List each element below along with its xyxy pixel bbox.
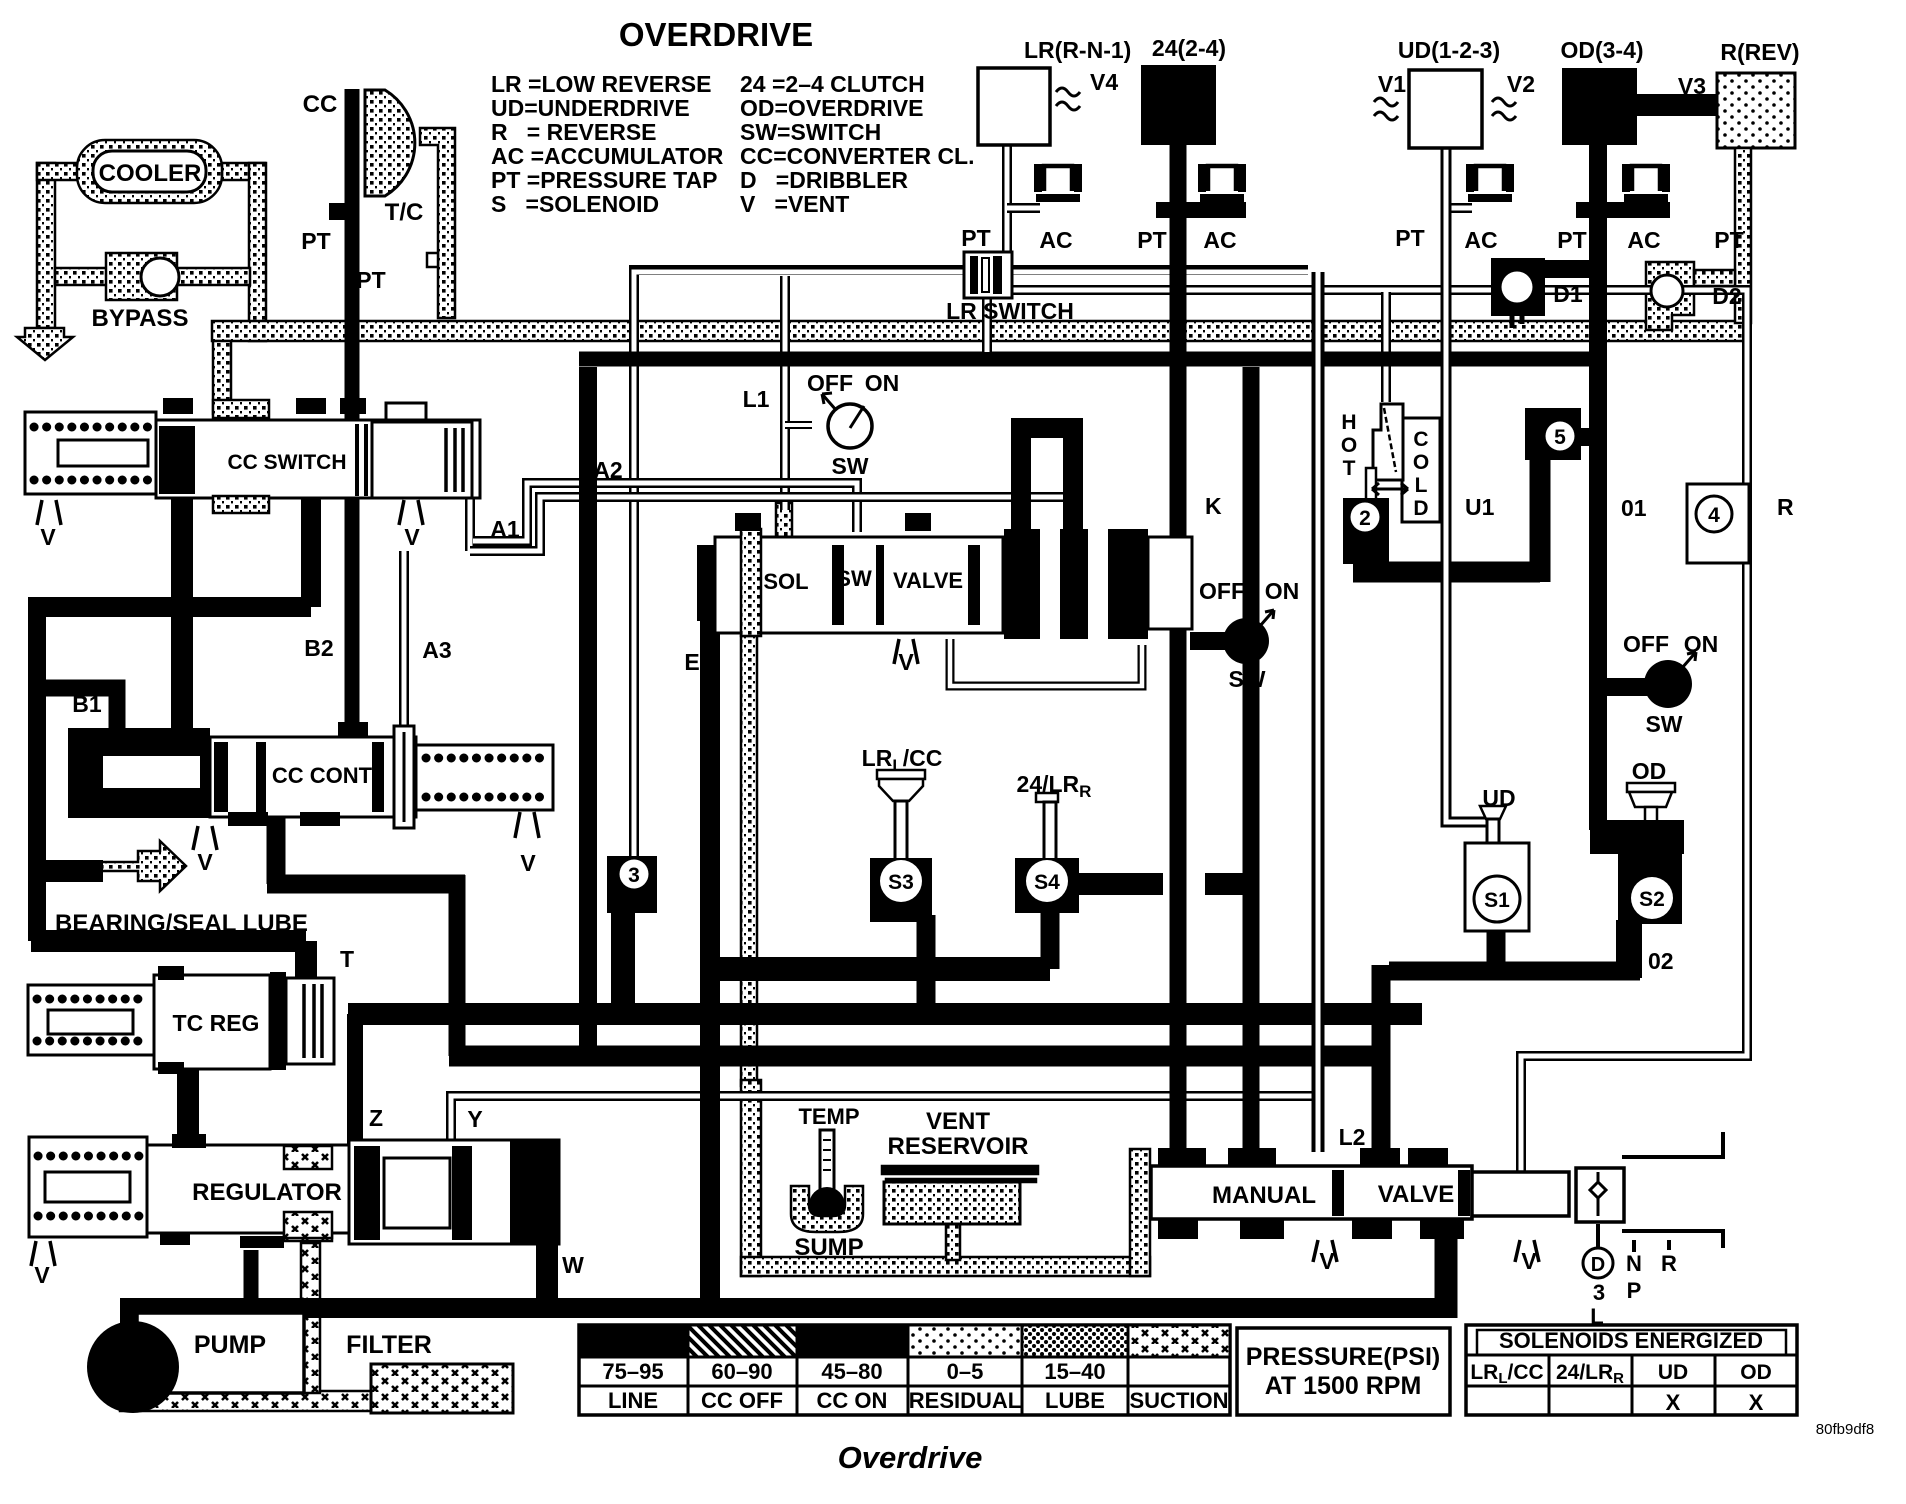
svg-text:S1: S1 [1484, 889, 1510, 912]
svg-text:OD=OVERDRIVE: OD=OVERDRIVE [740, 95, 923, 121]
solenoid S2 funnel [1627, 783, 1675, 792]
sump bottom wall [741, 1257, 1150, 1276]
valve BYPASS body [106, 253, 177, 300]
svg-text:0–5: 0–5 [947, 1359, 984, 1384]
svg-text:80fb9df8: 80fb9df8 [1816, 1421, 1874, 1438]
svg-text:A3: A3 [422, 637, 451, 663]
svg-text:S2: S2 [1639, 888, 1665, 911]
wire T/C right channel [420, 128, 455, 318]
wire A3 stem [399, 551, 409, 731]
valve CC CONT body [210, 737, 416, 817]
svg-text:E: E [684, 649, 699, 675]
svg-text:SUCTION: SUCTION [1130, 1388, 1229, 1413]
wire main trunk VB riser [579, 367, 597, 1056]
svg-text:V1: V1 [1378, 71, 1406, 97]
wire LR stem [1002, 145, 1012, 258]
solenoid S4 stem [1036, 793, 1058, 802]
node 3 (black box with circle) [607, 856, 657, 913]
wire regulator W drop [536, 1240, 558, 1308]
svg-text:OFF: OFF [1623, 631, 1669, 657]
svg-text:PUMP: PUMP [194, 1331, 266, 1359]
valve CC CONT spring housing [416, 745, 553, 810]
thermometer TEMP [820, 1130, 834, 1192]
dribbler D2 housing [1646, 262, 1694, 330]
wire 5-box to OD link [1578, 428, 1600, 446]
svg-text:T: T [1343, 457, 1356, 480]
svg-text:SOLENOIDS ENERGIZED: SOLENOIDS ENERGIZED [1499, 1328, 1763, 1353]
svg-text:W: W [562, 1252, 584, 1278]
svg-text:R: R [1661, 1251, 1677, 1276]
svg-text:PT: PT [356, 267, 385, 293]
cooler inner [93, 151, 206, 192]
svg-text:B1: B1 [72, 691, 102, 717]
valve TC REG body [154, 975, 270, 1069]
wire L1 to switch tap [785, 421, 812, 429]
wire LR switch drop to line header [982, 298, 992, 352]
svg-text:OD: OD [1632, 758, 1667, 784]
valve MANUAL right bar [1472, 1172, 1569, 1216]
svg-text:LINE: LINE [608, 1388, 658, 1413]
valve MANUAL top slabs [1158, 1148, 1206, 1170]
svg-text:CC CONT: CC CONT [272, 763, 373, 788]
wire 3-box drop [611, 905, 635, 1014]
wire manual valve right bracket top [1622, 1132, 1723, 1157]
wire S1 drop [1487, 925, 1506, 971]
wire cooler left down-channel [37, 163, 55, 328]
wire drop to CC switch [213, 341, 231, 414]
suction channel regulator drop [301, 1243, 320, 1393]
svg-text:S =SOLENOID: S =SOLENOID [491, 191, 659, 217]
svg-text:V: V [404, 524, 420, 550]
switch SW mid (black, on) [1223, 618, 1269, 664]
bearing/seal lube arrow [101, 841, 186, 891]
pressure tap nub on CC line [329, 203, 345, 220]
valve REGULATOR body [147, 1145, 349, 1233]
svg-text:C: C [1413, 428, 1428, 451]
svg-text:24(2-4): 24(2-4) [1152, 35, 1226, 61]
switch SW top (off/on) [828, 404, 872, 448]
svg-text:K: K [1205, 493, 1222, 519]
svg-text:01: 01 [1621, 495, 1647, 521]
switch SW right (black, on) [1644, 660, 1692, 708]
svg-text:U1: U1 [1465, 494, 1495, 520]
wire CC switch left drop to CC cont [171, 490, 193, 737]
suction patch on regulator bottom [284, 1212, 332, 1238]
svg-text:L1: L1 [743, 386, 770, 412]
svg-text:R(REV): R(REV) [1720, 39, 1799, 65]
svg-text:OD: OD [1740, 1361, 1772, 1384]
svg-text:L: L [1415, 474, 1428, 497]
svg-text:FILTER: FILTER [346, 1331, 432, 1359]
svg-text:45–80: 45–80 [821, 1359, 882, 1384]
svg-text:UD: UD [1658, 1361, 1688, 1384]
svg-text:SOL: SOL [763, 569, 808, 594]
svg-text:OVERDRIVE: OVERDRIVE [619, 16, 813, 53]
svg-text:OD(3-4): OD(3-4) [1560, 37, 1643, 63]
solenoids table frame [1466, 1325, 1797, 1415]
svg-text:T/C: T/C [385, 199, 424, 226]
wire A1 stem [465, 455, 475, 551]
svg-text:OFF: OFF [1199, 578, 1245, 604]
solenoid S1 (outline) [1465, 843, 1529, 931]
wire 24 accumulator bar [1156, 202, 1246, 218]
svg-text:V: V [898, 649, 914, 675]
wire manual valve right bracket bottom [1622, 1231, 1723, 1248]
valve REGULATOR right section [349, 1140, 559, 1244]
svg-text:BEARING/SEAL LUBE: BEARING/SEAL LUBE [55, 910, 308, 937]
wire S4 right link segment b [1205, 873, 1251, 895]
svg-text:ON: ON [1684, 631, 1719, 657]
wire TC REG to regulator [177, 1052, 199, 1142]
svg-text:PT: PT [301, 228, 330, 254]
wire drain riser V7 [449, 875, 466, 1056]
svg-text:02: 02 [1648, 948, 1674, 974]
valve SOL-SW-VALVE body [715, 537, 1003, 633]
legend grid [579, 1357, 1230, 1415]
svg-text:R = REVERSE: R = REVERSE [491, 119, 657, 145]
converter T/C half-disc [365, 90, 415, 196]
svg-text:LRL/CC: LRL/CC [1470, 1361, 1543, 1387]
svg-text:AC =ACCUMULATOR: AC =ACCUMULATOR [491, 143, 724, 169]
wire lube header H5 [710, 957, 1050, 981]
valve SOL-SW-VALVE left port [697, 545, 731, 621]
wire bottom trunk H9 [120, 1298, 1457, 1318]
suction channel pump to filter [120, 1391, 372, 1411]
sump right wall [1130, 1149, 1150, 1276]
valve TC REG spring housing [28, 985, 154, 1055]
svg-text:PT: PT [961, 225, 990, 251]
wire left riser B1/T [28, 597, 46, 941]
suction patch below regulator [284, 1213, 332, 1241]
svg-text:PT: PT [1557, 227, 1586, 253]
svg-text:Y: Y [467, 1106, 482, 1132]
sump cup [791, 1186, 863, 1232]
valve CC CONT A3 piston [394, 726, 414, 828]
svg-text:V: V [40, 524, 56, 550]
svg-text:SUMP: SUMP [794, 1234, 863, 1261]
svg-text:X: X [1749, 1390, 1764, 1415]
svg-text:SW=SWITCH: SW=SWITCH [740, 119, 881, 145]
accumulator AC-24 [1198, 164, 1246, 202]
svg-text:3: 3 [628, 864, 640, 887]
wire A2 branch [473, 483, 857, 541]
filter element [371, 1364, 513, 1413]
wire B2 header [29, 597, 311, 617]
svg-text:AT 1500 RPM: AT 1500 RPM [1265, 1372, 1422, 1400]
wire cooler outlet arrow [17, 328, 73, 360]
svg-text:CC SWITCH: CC SWITCH [228, 451, 347, 474]
svg-text:UD=UNDERDRIVE: UD=UNDERDRIVE [491, 95, 690, 121]
wire pump inlet hook [120, 1299, 139, 1326]
wire long lube header channel [212, 321, 1748, 341]
wire CC cont drain [267, 818, 465, 884]
node 5 (black box with circle) [1525, 408, 1581, 460]
solenoid S1 stem [1480, 806, 1506, 819]
legend pattern LINE [579, 1325, 688, 1357]
wire manual valve feed riser [1243, 367, 1260, 1162]
svg-text:BYPASS: BYPASS [92, 305, 189, 332]
accumulator AC-LR [1034, 164, 1082, 202]
svg-text:PT: PT [1714, 227, 1743, 253]
vent reservoir fill [884, 1182, 1020, 1224]
dribbler D2 [1694, 270, 1735, 286]
valve BYPASS ball [141, 258, 179, 296]
svg-text:LUBE: LUBE [1045, 1388, 1105, 1413]
wire OD line 01 [1589, 145, 1607, 830]
svg-text:2: 2 [1359, 507, 1371, 530]
wire cooler right link [222, 163, 265, 180]
svg-text:D =DRIBBLER: D =DRIBBLER [740, 167, 908, 193]
svg-text:L: L [1590, 1304, 1603, 1329]
svg-text:UD: UD [1482, 785, 1515, 811]
svg-text:D2: D2 [1712, 283, 1741, 309]
svg-text:SW: SW [1228, 666, 1265, 692]
wire residual header lower (R net) [1011, 290, 1747, 1172]
solenoid S2 [1590, 820, 1684, 854]
wire Z drop to regulator [348, 1014, 355, 1152]
svg-text:O: O [1413, 451, 1429, 474]
wire L1 line [780, 276, 790, 510]
svg-text:L2: L2 [1339, 1124, 1366, 1150]
svg-text:CC OFF: CC OFF [701, 1388, 783, 1413]
wire T header [31, 941, 306, 978]
vent reservoir stem [946, 1224, 960, 1260]
detent D stem and ticks [1598, 1224, 1669, 1252]
svg-text:PRESSURE(PSI): PRESSURE(PSI) [1246, 1343, 1440, 1371]
wire S2 bottom link [1381, 965, 1640, 1162]
wire B1 loop into CC cont [37, 688, 117, 737]
svg-text:UD(1-2-3): UD(1-2-3) [1398, 37, 1500, 63]
wire trunk H7 [348, 1003, 1422, 1025]
wire S3 drain [917, 915, 936, 1014]
accumulator AC-OD [1622, 164, 1670, 202]
svg-text:T: T [340, 946, 354, 972]
svg-text:RESIDUAL: RESIDUAL [909, 1388, 1021, 1413]
svg-text:V =VENT: V =VENT [740, 191, 849, 217]
svg-text:V: V [1521, 1248, 1537, 1274]
svg-text:V3: V3 [1678, 73, 1706, 99]
svg-text:3: 3 [1593, 1280, 1605, 1305]
svg-text:5: 5 [1554, 426, 1566, 449]
svg-text:A1: A1 [490, 516, 520, 542]
suction patch above regulator [284, 1145, 332, 1169]
vent fork CC cont left [193, 826, 217, 850]
legend table frame [579, 1325, 1230, 1415]
svg-text:B2: B2 [304, 635, 333, 661]
reverse circuit R(REV) reservoir box [1717, 73, 1795, 148]
wire OD accumulator bar [1576, 202, 1670, 218]
svg-text:A2: A2 [593, 457, 622, 483]
svg-text:V2: V2 [1507, 71, 1535, 97]
valve TC REG right cylinder [270, 972, 286, 1070]
vent fork manual left [1313, 1240, 1337, 1262]
valve MANUAL bottom slabs [1158, 1219, 1198, 1239]
clutch UD(1-2-3) box [1409, 70, 1482, 148]
svg-text:LR =LOW REVERSE: LR =LOW REVERSE [491, 71, 711, 97]
clutch LR(R-N-1) box [978, 68, 1050, 145]
wire CC switch mid drop [301, 495, 321, 607]
vent fork manual right [1515, 1240, 1539, 1262]
svg-text:V: V [1319, 1248, 1335, 1274]
wire cooler top link [37, 163, 95, 180]
valve CC SWITCH right cylinder [372, 422, 472, 498]
node 4 (outline box with circle) [1687, 484, 1749, 563]
svg-text:CC ON: CC ON [817, 1388, 888, 1413]
solenoid S3 funnel [877, 770, 925, 779]
svg-text:D: D [1413, 497, 1428, 520]
svg-text:PT: PT [1137, 227, 1166, 253]
wire E line [700, 612, 720, 1308]
pump rotor [87, 1321, 179, 1413]
svg-text:24 =2–4 CLUTCH: 24 =2–4 CLUTCH [740, 71, 925, 97]
svg-text:S4: S4 [1034, 871, 1060, 894]
switch LR SWITCH [964, 252, 1012, 298]
valve CC SWITCH spring housing [25, 412, 156, 494]
wire manual valve bottom-right drop [1435, 1219, 1458, 1318]
svg-text:AC: AC [1039, 227, 1072, 253]
wire hot-cold 2-box link [1353, 450, 1540, 582]
svg-text:LRL/CC: LRL/CC [862, 745, 943, 775]
valve REGULATOR spring housing [29, 1137, 147, 1237]
wire cooler right down-channel [249, 163, 266, 341]
svg-text:SW: SW [831, 453, 868, 479]
node 2 (black box with circle) [1343, 498, 1389, 564]
svg-text:R: R [1777, 494, 1794, 520]
svg-text:LR(R-N-1): LR(R-N-1) [1024, 37, 1131, 63]
valve MANUAL body [1151, 1166, 1472, 1219]
wire solenoid-valve drain (dotted) [741, 636, 757, 1086]
wire S4 right link segment a [1079, 873, 1163, 895]
wire line-pressure header H1 [579, 352, 1607, 367]
clutch 24(2-4) box [1141, 65, 1216, 145]
wire LR accumulator link [1007, 203, 1040, 213]
svg-text:COOLER: COOLER [99, 160, 202, 187]
vent fork CC switch left [37, 500, 61, 525]
svg-text:ON: ON [865, 370, 900, 396]
vent V1 squiggle [1374, 98, 1398, 120]
vent fork sol valve [894, 639, 918, 664]
legend pattern LUBE [1022, 1325, 1128, 1357]
svg-text:V: V [197, 849, 213, 875]
svg-text:PT: PT [1395, 225, 1424, 251]
detent D-box [1576, 1168, 1624, 1222]
svg-text:RESERVOIR: RESERVOIR [888, 1133, 1029, 1160]
valve CC SWITCH body [156, 420, 480, 498]
svg-text:SW: SW [1645, 711, 1682, 737]
svg-text:REGULATOR: REGULATOR [192, 1179, 342, 1206]
pressure box [1237, 1328, 1450, 1415]
svg-text:AC: AC [1203, 227, 1236, 253]
svg-text:N: N [1626, 1251, 1642, 1276]
svg-text:V: V [520, 850, 536, 876]
svg-text:PT =PRESSURE TAP: PT =PRESSURE TAP [491, 167, 717, 193]
wire R box down channel [1735, 148, 1751, 323]
wire loop under valve right section [950, 639, 1142, 686]
legend pattern CC ON [797, 1325, 908, 1357]
svg-text:15–40: 15–40 [1044, 1359, 1105, 1384]
svg-text:V4: V4 [1090, 69, 1118, 95]
svg-text:O: O [1341, 434, 1357, 457]
wire Y line [451, 1096, 1313, 1142]
svg-text:TEMP: TEMP [798, 1104, 859, 1129]
vent reservoir second plate [886, 1179, 1036, 1182]
accumulator AC-UD [1466, 164, 1514, 202]
wire S4 drain [1041, 908, 1060, 969]
svg-text:VALVE: VALVE [893, 568, 963, 593]
suction patch on regulator top [284, 1146, 332, 1169]
svg-text:4: 4 [1708, 504, 1720, 527]
svg-text:X: X [1666, 1390, 1681, 1415]
cooler body [77, 140, 222, 203]
solenoid valve internal dotted post [776, 503, 792, 551]
valve CC CONT left black section [68, 728, 210, 818]
wire L2 line [1312, 272, 1325, 1152]
solenoid S3 [870, 858, 932, 922]
clutch OD(3-4) box [1562, 68, 1637, 145]
vent fork regulator [31, 1241, 55, 1266]
svg-text:TC REG: TC REG [173, 1010, 260, 1036]
vent fork CC cont right [515, 812, 539, 838]
vent reservoir top plate [882, 1166, 1038, 1174]
wire n-loop over valve right section [1021, 428, 1073, 529]
svg-text:60–90: 60–90 [711, 1359, 772, 1384]
svg-text:VALVE: VALVE [1378, 1181, 1454, 1208]
svg-text:SW: SW [836, 566, 872, 591]
legend pattern CC OFF [688, 1325, 797, 1357]
svg-text:MANUAL: MANUAL [1212, 1182, 1316, 1209]
wire OD to R(REV) stub [1637, 94, 1717, 116]
valve right section slabs [1004, 529, 1040, 639]
svg-text:V: V [34, 1262, 50, 1288]
sump left wall [741, 1080, 761, 1276]
svg-text:H: H [1341, 411, 1356, 434]
svg-text:Overdrive: Overdrive [838, 1440, 983, 1475]
wire bearing lube tail [28, 860, 103, 882]
wire hot-cold feed [1381, 292, 1391, 402]
wire OD to switch link [1598, 678, 1652, 696]
svg-text:LR SWITCH: LR SWITCH [946, 298, 1074, 324]
wire valve to mid switch link [1190, 632, 1228, 650]
svg-text:75–95: 75–95 [602, 1359, 663, 1384]
wire residual header upper (A2 net) [634, 270, 1308, 856]
vent V2 squiggle [1492, 98, 1516, 120]
svg-text:OFF: OFF [807, 370, 853, 396]
svg-text:VENT: VENT [926, 1108, 990, 1135]
vent fork CC switch right [399, 500, 423, 525]
svg-text:CC=CONVERTER CL.: CC=CONVERTER CL. [740, 143, 975, 169]
vent V4 squiggle [1056, 88, 1080, 110]
legend pattern SUCTION [1128, 1325, 1230, 1357]
svg-text:CC: CC [303, 91, 338, 118]
svg-text:D: D [1591, 1254, 1605, 1276]
wire U1 line [1446, 148, 1491, 845]
svg-text:AC: AC [1464, 227, 1497, 253]
wire trunk H8 [449, 1046, 1390, 1067]
wire K line (24 clutch feed) [1170, 145, 1187, 1162]
wire CC line (converter clutch) [345, 89, 360, 737]
svg-text:ON: ON [1265, 578, 1300, 604]
pressure tap PT on T/C channel [427, 253, 438, 267]
wire A1 branch [470, 497, 1070, 551]
pump housing [137, 1313, 304, 1393]
wire L2 line (drawn over trunks) [987, 148, 1491, 1152]
thermal element HOT/COLD [1402, 418, 1440, 522]
legend pattern RESIDUAL [908, 1325, 1022, 1357]
svg-text:D1: D1 [1553, 281, 1583, 307]
svg-text:P: P [1627, 1278, 1642, 1303]
svg-text:S3: S3 [888, 871, 914, 894]
solenoid S4 [1015, 858, 1079, 913]
